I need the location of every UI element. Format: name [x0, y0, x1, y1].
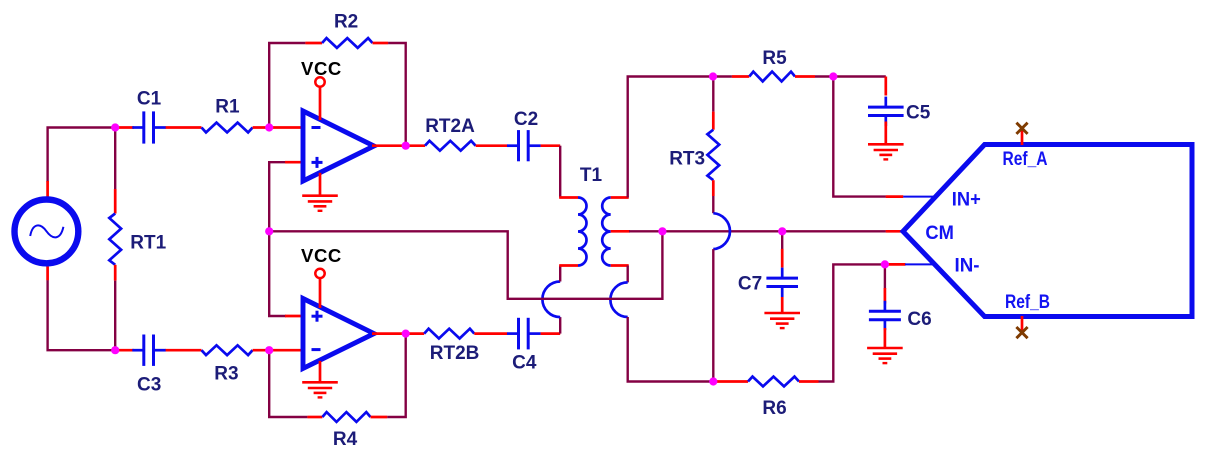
svg-text:RT2A: RT2A: [425, 116, 475, 137]
junction node U2 inverting input: [265, 346, 273, 354]
capacitor C6: [884, 301, 887, 311]
resistor RT3: [707, 130, 719, 181]
svg-text:VCC: VCC: [301, 58, 342, 79]
wire C7 top pin lead: [781, 249, 784, 268]
wire R5 left pin lead: [732, 75, 749, 78]
svg-text:CM: CM: [925, 222, 954, 244]
wire C3 to R3: [166, 349, 202, 352]
wire corner down to T1 primary top: [559, 146, 561, 198]
svg-text:R1: R1: [215, 97, 240, 118]
junction node C6/IN-: [881, 260, 889, 268]
wire R2 right pin lead: [373, 42, 389, 45]
wire T1 center tap pin lead: [611, 230, 630, 233]
svg-text:C4: C4: [512, 353, 537, 374]
svg-text:C1: C1: [137, 89, 162, 110]
wire C6 top pin lead: [884, 288, 887, 304]
wire source top to C1 junction row: [48, 128, 117, 183]
resistor RT3 top lead wire: [712, 77, 714, 112]
wire R5 right pin lead: [795, 75, 815, 78]
svg-text:R6: R6: [762, 398, 786, 419]
wire T1 primary top pin lead: [559, 196, 578, 199]
wire RT2A to C2: [476, 144, 508, 147]
resistor R1: [202, 123, 253, 133]
wire T1 secondary bottom to hop: [627, 266, 629, 283]
junction node R5 left: [709, 72, 717, 80]
wire hop over lower feedback row right: [610, 282, 627, 317]
resistor R2: [322, 38, 372, 48]
wire mid feedback row: [269, 231, 662, 298]
no-connect X Ref_A: [1016, 123, 1027, 134]
wire source bottom pin lead: [46, 266, 49, 280]
wire T1 secondary top to R5 row: [628, 77, 732, 198]
resistor RT2B: [424, 329, 474, 339]
junction node C1/RT1 top: [111, 123, 119, 131]
wire C7 junction stem: [781, 231, 783, 249]
wire hop over lower feedback row left: [542, 282, 560, 318]
wire R4 feedback right vertical: [387, 334, 405, 417]
resistor R6: [748, 377, 799, 387]
wire U2 noninverting pin lead: [285, 315, 303, 318]
svg-text:C2: C2: [514, 109, 538, 130]
transformer T1 secondary winding: [602, 198, 611, 266]
resistor RT1: [109, 214, 121, 265]
resistor RT3 bottom pin lead: [712, 180, 715, 196]
svg-text:Ref_A: Ref_A: [1003, 149, 1048, 170]
wire U1 output to RT2A: [372, 144, 425, 147]
ground C6: [867, 348, 903, 363]
junction node C3/RT1 bottom: [111, 346, 119, 354]
junction node feedback mid row: [265, 227, 273, 235]
transformer T1 primary winding: [578, 198, 587, 266]
wire hop over CM row at RT3: [713, 213, 730, 249]
pin IN+ stub: [903, 196, 935, 198]
wire R6 to IN- corner: [819, 264, 888, 381]
wire R2 feedback left vertical: [269, 43, 305, 128]
wire corner up to hop below T1 primary: [559, 317, 561, 334]
resistor RT1 bottom lead wire: [114, 281, 116, 351]
capacitor C4: [507, 332, 518, 335]
wire RT3 hop to R6 junction: [712, 249, 714, 381]
junction node R6 left: [709, 377, 717, 385]
ground U1: [302, 196, 338, 211]
junction node U1 output: [402, 142, 410, 150]
wire U1 noninverting pin lead: [285, 161, 303, 164]
wire C7 bottom pin lead: [781, 297, 784, 313]
capacitor C3: [132, 349, 143, 352]
wire R5 row to C5: [833, 75, 886, 77]
wire C1 left lead: [117, 126, 134, 129]
capacitor C5: [884, 97, 887, 107]
wire R2 feedback right vertical: [388, 43, 406, 146]
wire T1 primary bottom pin lead: [559, 264, 578, 267]
wire CM row junction to RT3 hop and C7: [662, 230, 886, 232]
pin IN- stub: [905, 263, 935, 265]
resistor RT3 lower wire to hop: [712, 196, 714, 213]
wire U2 ground stem: [319, 361, 322, 382]
resistor RT1 top lead wire: [114, 128, 116, 190]
wire IN+ branch from R5 junction: [833, 77, 886, 197]
wire IN- pin lead: [887, 263, 906, 266]
wire R1 to U1 inverting input: [253, 126, 303, 129]
ADC U3 body: [903, 145, 1192, 317]
wire hop bottom to R6 row: [628, 317, 716, 382]
power symbol VCC U2: [315, 269, 324, 308]
wire U1 noninverting input from mid row: [269, 162, 286, 231]
svg-text:R4: R4: [333, 429, 358, 450]
ground U2: [302, 382, 338, 397]
junction node U1 inverting input: [265, 123, 273, 131]
resistor R5: [749, 72, 795, 82]
wire source bottom to C3 junction row: [48, 280, 117, 350]
svg-text:R3: R3: [214, 364, 238, 385]
wire R6 left pin lead: [716, 380, 748, 383]
resistor RT1 top pin lead: [114, 189, 117, 214]
wire C2 to transformer corner: [541, 144, 561, 147]
wire R3 to U2 inverting input: [253, 349, 303, 352]
wire hop top to T1 primary bottom corner: [559, 266, 561, 282]
wire R4 right pin lead: [371, 416, 388, 419]
svg-text:IN+: IN+: [952, 189, 981, 211]
junction node C7/CM: [778, 227, 786, 235]
pin Ref_B stub: [1021, 316, 1024, 333]
power symbol VCC U1: [315, 77, 324, 120]
svg-text:RT3: RT3: [669, 149, 705, 170]
no-connect X Ref_B: [1016, 327, 1027, 338]
wire R6 right pin lead: [799, 380, 819, 383]
resistor R4: [322, 412, 370, 422]
resistor RT3 top pin lead: [712, 112, 715, 130]
wire R4 left pin lead: [307, 416, 322, 419]
wire T1 secondary bottom pin lead: [611, 264, 629, 267]
capacitor C2: [507, 144, 518, 147]
wire source top pin lead: [46, 181, 49, 197]
wire RT2B to C4: [474, 332, 507, 335]
svg-text:C5: C5: [906, 103, 931, 124]
resistor R3: [202, 345, 253, 355]
svg-text:VCC: VCC: [301, 245, 342, 266]
svg-text:RT2B: RT2B: [430, 343, 480, 364]
pin Ref_A stub: [1021, 128, 1024, 145]
svg-text:Ref_B: Ref_B: [1005, 292, 1050, 313]
wire IN+ pin lead: [886, 195, 904, 198]
wire C1 to R1: [166, 126, 202, 129]
wire U2 noninverting input from mid row: [269, 231, 286, 316]
svg-text:IN-: IN-: [955, 254, 980, 276]
wire C5 bottom pin lead: [884, 122, 887, 145]
wire C4 to hop corner: [541, 332, 561, 335]
svg-text:R2: R2: [334, 12, 358, 33]
svg-text:C3: C3: [137, 375, 161, 396]
wire center tap to CM junction: [629, 230, 663, 232]
junction node R5 right: [829, 72, 837, 80]
op-amp U1: [303, 111, 374, 181]
svg-text:T1: T1: [580, 165, 603, 186]
wire T1 secondary top pin lead: [611, 196, 629, 199]
wire C6 junction stem: [884, 264, 886, 288]
svg-text:R5: R5: [762, 48, 787, 69]
wire R5 to C5 corner: [815, 75, 833, 77]
svg-text:C7: C7: [738, 273, 762, 294]
svg-text:C6: C6: [907, 309, 931, 330]
capacitor C1: [132, 126, 143, 129]
op-amp U2: [303, 299, 374, 369]
capacitor C7: [781, 268, 784, 278]
ground C7: [764, 313, 800, 328]
wire U1 ground stem: [319, 173, 322, 196]
wire CM pin lead: [886, 230, 904, 233]
junction node U2 output: [402, 330, 410, 338]
junction node center tap: [658, 227, 666, 235]
resistor RT2A: [425, 141, 476, 151]
wire C6 bottom pin lead: [884, 328, 887, 348]
svg-text:RT1: RT1: [130, 233, 166, 254]
wire C3 left lead: [117, 349, 134, 352]
wire U2 output to RT2B: [372, 332, 424, 335]
voltage source V1: [15, 200, 79, 264]
ground C5: [868, 144, 904, 159]
wire C5 top pin lead: [884, 77, 887, 96]
wire R2 left pin lead: [305, 42, 322, 45]
resistor RT1 bottom pin lead: [114, 265, 117, 281]
wire R4 feedback left vertical: [269, 350, 307, 417]
